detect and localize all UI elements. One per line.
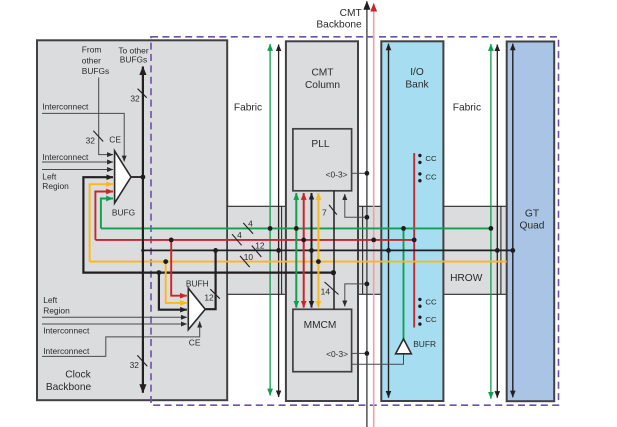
svg-text:4: 4	[237, 230, 242, 240]
svg-text:Bank: Bank	[405, 80, 429, 91]
CC pad dots upper	[418, 154, 421, 183]
svg-text:BUFG: BUFG	[112, 208, 135, 218]
wire CMT backbone pink vertical	[373, 3, 375, 427]
wire I/O bank clock vertical	[388, 44, 390, 398]
wire BUFH CE input	[42, 322, 200, 357]
slash 12 black	[252, 246, 261, 257]
slash 4 green	[243, 223, 253, 234]
slash 32 to other BUFGs	[138, 89, 147, 98]
junction line A at GT quad	[510, 248, 515, 253]
slash 10 yellow	[240, 256, 250, 267]
svg-text:Fabric: Fabric	[234, 103, 262, 114]
junction line B at PLL down line	[331, 270, 336, 275]
wire HROW green horizontal	[101, 227, 491, 229]
wire BUFH yellow input elbow	[166, 262, 187, 303]
buffer BUFH	[188, 288, 205, 329]
svg-text:From: From	[82, 44, 102, 54]
junction line B at BUFH	[157, 270, 162, 275]
svg-text:14: 14	[321, 287, 331, 297]
wire MMCM input from backbone	[345, 284, 367, 307]
wire BUFG red input elbow	[95, 192, 113, 240]
svg-text:other: other	[82, 55, 101, 65]
svg-text:Region: Region	[43, 305, 70, 315]
svg-text:CC: CC	[425, 315, 437, 324]
HROW band middle segment	[358, 206, 381, 294]
svg-text:I/O: I/O	[410, 67, 424, 78]
CMT column box	[286, 41, 358, 401]
MMCM box	[293, 309, 352, 371]
svg-text:CE: CE	[189, 338, 201, 348]
slash 32 from other BUFGs	[93, 131, 103, 142]
junction line A at 32 bus	[141, 249, 144, 252]
junction line A at BUFH output	[213, 248, 218, 253]
svg-text:Fabric: Fabric	[453, 103, 481, 114]
wire BUFG green input elbow	[101, 199, 113, 229]
wire MMCM to BUFR	[352, 354, 404, 364]
svg-text:Clock: Clock	[65, 370, 91, 381]
wire HROW black line A	[143, 249, 513, 251]
wire PLL down line	[333, 191, 335, 309]
wire CC red vertical	[413, 153, 415, 327]
svg-text:Interconnect: Interconnect	[43, 326, 90, 336]
svg-text:HROW: HROW	[450, 273, 483, 284]
wire BUFG yellow input elbow	[90, 184, 113, 261]
wire PLL input from backbone	[345, 194, 367, 217]
svg-text:4: 4	[248, 218, 253, 228]
junction line A at IO bank	[386, 248, 391, 253]
svg-text:Backbone: Backbone	[316, 19, 362, 30]
junction red at CMT red	[301, 238, 306, 243]
wire fabric clock left green vertical	[269, 44, 271, 396]
junction yellow at CMT yellow	[316, 259, 321, 264]
wire MMCM 0-3 output to backbone	[352, 352, 367, 354]
wire HROW yellow horizontal	[90, 261, 507, 263]
slash 32 bottom	[137, 355, 147, 366]
junction backbone at PLL input	[365, 215, 370, 220]
svg-text:Column: Column	[305, 80, 340, 91]
svg-text:12: 12	[255, 241, 265, 251]
wire left region black line B	[83, 177, 333, 272]
svg-text:Region: Region	[42, 181, 69, 191]
svg-text:GT: GT	[525, 209, 539, 220]
svg-text:Interconnect: Interconnect	[42, 152, 89, 162]
buffer BUFG	[115, 151, 131, 203]
svg-text:Left: Left	[43, 295, 58, 305]
svg-text:CC: CC	[425, 298, 437, 307]
GT quad box	[507, 42, 555, 402]
svg-text:CC: CC	[425, 173, 437, 182]
wire BUFG output	[131, 176, 143, 178]
slash 14 MMCM	[325, 282, 339, 295]
slash 7 PLL	[329, 205, 337, 215]
clock backbone box	[37, 40, 227, 400]
junction green at right fabric	[489, 226, 494, 231]
svg-text:BUFGs: BUFGs	[82, 66, 109, 76]
HROW spine left	[281, 206, 283, 294]
wire HROW red horizontal	[95, 239, 414, 241]
I/O bank box	[381, 41, 443, 401]
junction line A at left fabric	[276, 248, 281, 253]
wire fabric clock left black vertical	[278, 45, 280, 398]
wire GT quad clock vertical	[512, 44, 514, 398]
CC pad dots lower	[418, 298, 421, 326]
svg-text:Interconnect: Interconnect	[43, 346, 90, 356]
svg-text:BUFR: BUFR	[413, 339, 436, 349]
buffer BUFR	[396, 339, 412, 354]
wire CMT backbone black vertical	[366, 1, 368, 427]
svg-text:10: 10	[244, 252, 254, 262]
svg-text:32: 32	[130, 360, 140, 370]
svg-text:CMT: CMT	[311, 68, 333, 79]
junction backbone at PLL output	[365, 171, 370, 176]
HROW band right segment	[443, 206, 506, 294]
svg-text:CC: CC	[425, 154, 437, 163]
wire 32 bus to other BUFGs vertical	[142, 67, 144, 393]
svg-text:Left: Left	[42, 171, 57, 181]
wire fabric clock right black vertical	[496, 45, 498, 398]
svg-text:MMCM: MMCM	[304, 320, 337, 331]
junction backbone at MMCM input	[365, 282, 370, 287]
svg-text:BUFH: BUFH	[186, 279, 209, 289]
wire BUFR output green vertical	[403, 228, 405, 339]
CMT region dashed boundary	[151, 37, 559, 405]
HROW band left segment	[227, 206, 286, 294]
svg-text:CMT: CMT	[340, 8, 362, 19]
junction backbone at MMCM output	[365, 351, 370, 356]
wire BUFG CE input from interconnect	[42, 113, 124, 161]
svg-text:CE: CE	[109, 134, 121, 144]
svg-text:12: 12	[204, 292, 214, 302]
wire fabric clock right green vertical	[490, 44, 492, 399]
junction BUFG output	[141, 175, 146, 180]
PLL box	[293, 129, 352, 191]
svg-text:Quad: Quad	[520, 221, 545, 232]
junction green at CMT green	[294, 226, 299, 231]
junction line A at right fabric	[495, 248, 500, 253]
wire BUFH black input elbow	[159, 273, 187, 310]
svg-text:BUFGs: BUFGs	[120, 55, 147, 65]
junction line A at CMT black	[309, 248, 314, 253]
wire BUFH interconnect input	[42, 323, 187, 325]
svg-text:PLL: PLL	[311, 139, 329, 150]
junction red at CC line	[412, 238, 417, 243]
wire BUFG third input	[42, 169, 113, 171]
wire BUFH output to line A	[205, 250, 215, 309]
wire BUFH red input elbow	[171, 240, 187, 296]
slash 12 BUFH output	[210, 289, 220, 299]
wire BUFH left region input	[42, 316, 187, 318]
svg-text:<0-3>: <0-3>	[326, 169, 348, 179]
svg-text:7: 7	[322, 208, 327, 218]
HROW spine middle	[362, 206, 364, 294]
wire BUFG interconnect input	[42, 161, 113, 163]
junction green at BUFH drop none red at BUFH	[169, 238, 174, 243]
HROW spine right	[500, 206, 502, 294]
svg-text:<0-3>: <0-3>	[326, 349, 348, 359]
wire CMT green vertical PLL-MMCM	[295, 193, 297, 308]
junction green at left fabric	[268, 226, 273, 231]
svg-text:32: 32	[130, 93, 140, 103]
svg-text:Interconnect: Interconnect	[42, 102, 89, 112]
junction green at BUFR	[401, 226, 406, 231]
svg-text:Backbone: Backbone	[46, 382, 92, 393]
junction yellow at BUFH	[163, 259, 168, 264]
wire CMT red vertical PLL-MMCM	[303, 193, 305, 308]
slash 4 red	[232, 234, 242, 245]
wire from other BUFGs input	[99, 78, 113, 155]
svg-text:32: 32	[86, 135, 96, 145]
wire CMT black vertical PLL-MMCM	[311, 193, 313, 308]
wire CMT yellow vertical PLL-MMCM	[317, 193, 319, 308]
wire PLL 0-3 output to backbone	[352, 172, 367, 174]
junction red at pink backbone	[371, 238, 376, 243]
